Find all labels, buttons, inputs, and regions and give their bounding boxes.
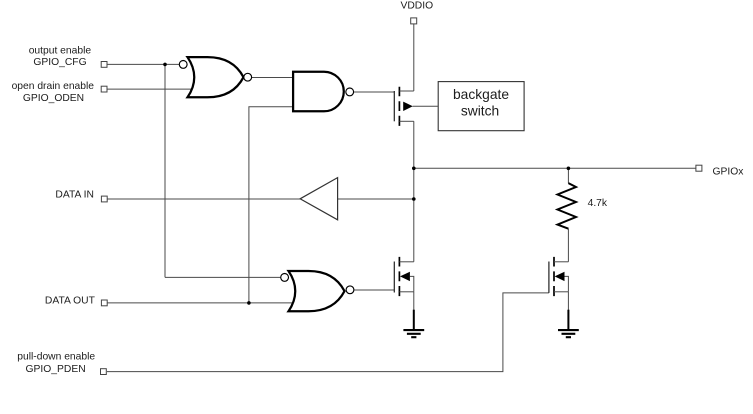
svg-text:backgate: backgate bbox=[453, 87, 509, 102]
svg-text:GPIO_PDEN: GPIO_PDEN bbox=[26, 364, 86, 375]
svg-text:pull-down enable: pull-down enable bbox=[17, 352, 95, 363]
terminal: DATA IN bbox=[101, 196, 107, 202]
wire: NOR output to driver NMOS gate bbox=[354, 289, 394, 291]
terminal: GPIO_PDEN bbox=[101, 369, 107, 375]
wire: pull-down NMOS source to ground bbox=[567, 292, 569, 311]
wire: NOR top input from vertical bbox=[165, 276, 280, 278]
svg-text:DATA OUT: DATA OUT bbox=[45, 296, 96, 307]
buffer U3 (data-in receiver, points left) bbox=[300, 178, 338, 220]
nor-gate U4 (data out, inverted top input) bbox=[281, 271, 354, 311]
or-gate U1 (output enable, inverted top input) bbox=[179, 57, 251, 97]
junction: GPIOx at PMOS column bbox=[412, 167, 416, 171]
svg-text:open drain enable: open drain enable bbox=[12, 81, 95, 92]
resistor R1 4.7k bbox=[558, 183, 577, 229]
wire: DATA IN from terminal to buffer output bbox=[107, 198, 300, 200]
wire: resistor bottom to pull-down NMOS drain bbox=[567, 229, 569, 262]
wire: VDDIO terminal down to PMOS drain bbox=[413, 24, 415, 91]
transistor Q3 (pull-down NMOS) bbox=[549, 257, 569, 296]
transistor Q1 (PMOS high-side) bbox=[394, 87, 438, 126]
svg-text:4.7k: 4.7k bbox=[588, 198, 608, 209]
wire: resistor top connection to GPIOx node bbox=[567, 168, 569, 183]
terminal: GPIO_ODEN bbox=[101, 86, 107, 92]
wire: driver NMOS source to ground bbox=[413, 292, 415, 311]
junction: buffer input tap bbox=[412, 197, 416, 201]
svg-text:GPIOx: GPIOx bbox=[713, 167, 745, 178]
svg-text:DATA IN: DATA IN bbox=[55, 189, 94, 200]
wire: DATA OUT terminal to NOR bottom input bbox=[107, 302, 293, 304]
ground (pull-down source) bbox=[558, 310, 579, 338]
wire: GPIO_PDEN to pull-down NMOS gate bbox=[107, 293, 549, 372]
ground (driver source) bbox=[403, 310, 424, 338]
transistor Q2 (driver NMOS) bbox=[394, 257, 414, 296]
svg-text:VDDIO: VDDIO bbox=[400, 1, 433, 12]
wire: GPIO_CFG input to OR1 top input bbox=[107, 63, 179, 65]
wire: PMOS source down to GPIOx node bbox=[413, 121, 415, 261]
svg-text:output enable: output enable bbox=[29, 46, 92, 57]
svg-text:GPIO_ODEN: GPIO_ODEN bbox=[23, 93, 84, 104]
wire: vertical from CFG junction down to NOR top input bbox=[164, 64, 166, 277]
wire: DATA OUT riser to NAND bottom input bbox=[249, 107, 295, 303]
terminal: DATA OUT bbox=[101, 300, 107, 306]
nand-gate U2 bbox=[293, 72, 354, 112]
svg-text:switch: switch bbox=[461, 104, 499, 119]
junction: DATA OUT tap bbox=[247, 301, 251, 305]
terminal: VDDIO bbox=[411, 18, 417, 24]
wire: GPIOx node horizontal line to pad terminal bbox=[414, 167, 696, 169]
terminal: GPIOx pad bbox=[696, 165, 702, 171]
terminal: GPIO_CFG bbox=[101, 62, 107, 68]
junction: CFG tap bbox=[163, 63, 167, 67]
wire: buffer input from GPIOx vertical bbox=[338, 198, 414, 200]
wire: GPIO_ODEN input to OR1 bottom input bbox=[107, 88, 205, 90]
backgate switch box bbox=[438, 82, 524, 131]
junction: resistor tap on GPIOx line bbox=[567, 167, 571, 171]
wire: NAND output to PMOS gate bbox=[354, 91, 394, 93]
svg-text:GPIO_CFG: GPIO_CFG bbox=[33, 57, 86, 68]
wire: OR1 output to NAND top input bbox=[252, 77, 295, 79]
